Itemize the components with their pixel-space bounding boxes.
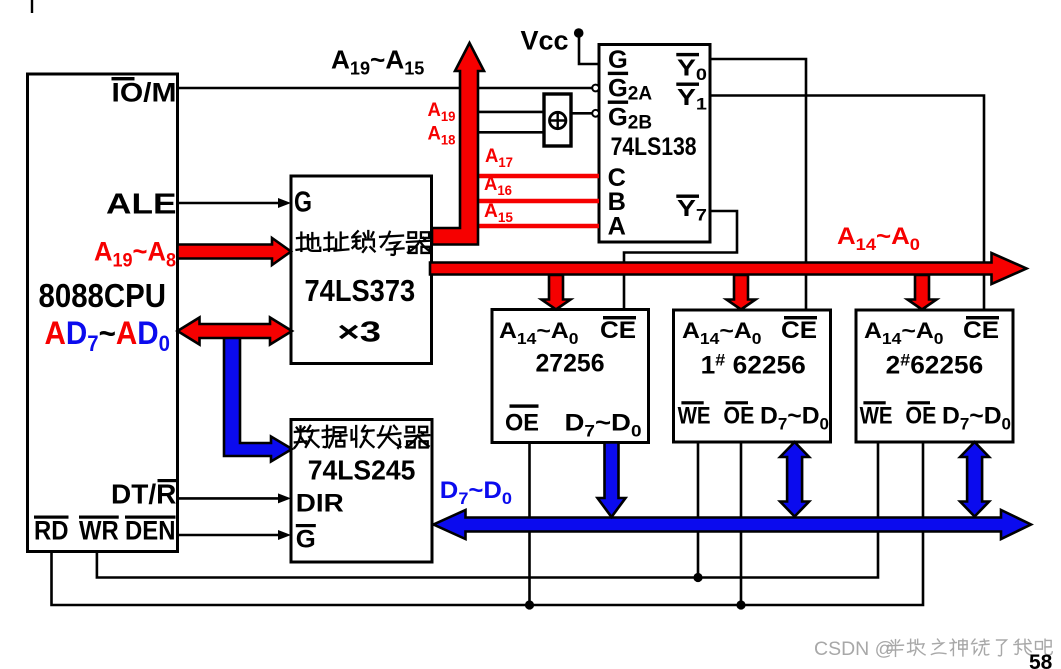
svg-text:G: G	[296, 526, 316, 554]
svg-text:D7~D0: D7~D0	[565, 410, 642, 441]
svg-text:DIR: DIR	[296, 490, 344, 518]
svg-text:WE: WE	[678, 402, 711, 429]
XOR gate	[544, 94, 571, 146]
blue double arrow chip2 data	[780, 442, 809, 517]
svg-text:A19~A15: A19~A15	[331, 45, 424, 79]
inverter bubble G2B	[592, 110, 599, 117]
wire branch RD to OE of chip2	[740, 442, 743, 605]
Vcc dot	[574, 28, 584, 38]
CJK char zhi 址	[324, 233, 348, 251]
memory chip 1# 62256	[674, 310, 831, 442]
watermark char zhi1	[931, 639, 945, 654]
svg-text:DEN: DEN	[125, 516, 176, 546]
svg-text:CE: CE	[963, 317, 999, 344]
memory chip 27256	[492, 310, 649, 443]
svg-text:A15: A15	[484, 201, 513, 225]
svg-text:A19~A8: A19~A8	[94, 237, 176, 272]
arrowhead DT/R->DIR	[278, 493, 291, 503]
red down arrow address into chip2	[727, 275, 756, 310]
CJK char suo 锁	[352, 231, 374, 252]
svg-text:8088CPU: 8088CPU	[39, 277, 167, 314]
blue down arrow 27256 data	[598, 443, 626, 518]
CJK char ju 据	[323, 426, 347, 448]
junction dot WR/WE chip2	[693, 573, 702, 582]
svg-text:RD: RD	[34, 516, 69, 546]
watermark char shen	[950, 639, 967, 656]
watermark char le	[997, 640, 1007, 656]
svg-text:D7~D0: D7~D0	[760, 402, 829, 433]
CJK char shou 收	[352, 426, 374, 447]
watermark char ban	[888, 640, 904, 657]
wire RD to OE pins	[52, 442, 924, 605]
CPU box 8088CPU	[28, 74, 178, 552]
decoder box 74LS138	[599, 45, 710, 243]
wire branch WR to WE of chip2	[697, 442, 700, 578]
latch box 74LS373	[291, 176, 432, 364]
blue double arrow chip3 data	[960, 442, 989, 517]
svg-text:WE: WE	[860, 402, 893, 429]
address bus A19~A15 vertical arrow	[432, 43, 484, 245]
address/data bus AD7~AD0 double arrow	[178, 318, 293, 345]
red down arrow address into 27256	[542, 275, 571, 310]
svg-text:IO/M: IO/M	[112, 78, 177, 108]
stray mark top-left	[31, 0, 33, 13]
svg-text:ALE: ALE	[106, 189, 177, 221]
svg-text:WR: WR	[79, 516, 119, 546]
wire Vcc to G input of 74LS138	[579, 33, 599, 64]
junction dot RD/OE chip2	[736, 600, 745, 609]
watermark char wo	[1014, 639, 1031, 655]
svg-text:OE: OE	[905, 402, 936, 429]
wire DT/R to DIR	[178, 497, 283, 500]
data bus D7~D0 (blue horizontal double-arrow bus)	[434, 510, 1032, 539]
wire WR to WE pins	[97, 442, 878, 578]
wire Y0 output to CE of chip2	[710, 59, 806, 310]
svg-text:DT/R: DT/R	[111, 479, 176, 510]
svg-text:CE: CE	[600, 317, 636, 344]
wire IO/M from CPU to G2A bubble	[178, 87, 593, 90]
svg-text:G: G	[608, 46, 628, 74]
red down arrow address into chip3	[908, 275, 937, 310]
svg-text:CE: CE	[781, 317, 817, 344]
svg-text:74LS245: 74LS245	[308, 455, 416, 486]
svg-text:27256: 27256	[536, 349, 605, 377]
data bus from AD7~AD0 down to 74LS245 (blue L arrow)	[224, 331, 292, 462]
wire Y7 output to CE of chip1	[624, 211, 737, 310]
svg-text:Vcc: Vcc	[521, 26, 569, 56]
svg-text:CSDN @: CSDN @	[814, 638, 894, 660]
wire branch RD to OE of 27256	[528, 443, 531, 606]
CJK char fa 发	[378, 426, 400, 448]
arrowhead DEN->G	[278, 530, 291, 540]
wire ALE to G of 74LS373	[178, 202, 283, 205]
CJK char shu 数	[295, 426, 319, 448]
svg-text:D7~D0: D7~D0	[440, 477, 512, 508]
CJK char qi 器	[405, 427, 429, 448]
svg-text:AD7~AD0: AD7~AD0	[45, 315, 171, 356]
CJK char cun 存	[380, 232, 403, 255]
memory chip 2# 62256	[856, 310, 1013, 442]
junction dot RD/OE 27256	[525, 600, 534, 609]
svg-text:A17: A17	[485, 146, 513, 170]
svg-text:A18: A18	[428, 124, 456, 148]
wire XOR output to G2B bubble	[571, 112, 593, 115]
arrowhead ALE->G	[278, 198, 291, 208]
svg-text:OE: OE	[505, 410, 539, 437]
wire A17 to C input	[478, 174, 599, 179]
svg-text:D7~D0: D7~D0	[942, 402, 1011, 433]
svg-text:A19: A19	[428, 100, 456, 124]
CJK char qi 器	[407, 232, 431, 253]
svg-text:OE: OE	[723, 402, 754, 429]
watermark char ba	[1036, 639, 1053, 655]
svg-text:58: 58	[1029, 651, 1053, 669]
svg-text:74LS138: 74LS138	[611, 133, 697, 161]
wire A16 to B input	[478, 199, 599, 204]
svg-text:74LS373: 74LS373	[305, 273, 416, 308]
svg-text:A14~A0: A14~A0	[837, 223, 920, 254]
wire A19 into XOR gate	[478, 111, 545, 114]
svg-text:×3: ×3	[337, 317, 381, 349]
address bus A19~A8 arrow CPU to 74LS373	[178, 238, 292, 265]
transceiver box 74LS245	[291, 420, 432, 563]
wire A15 to A input	[478, 224, 599, 229]
CJK char di 地	[297, 233, 321, 251]
svg-text:A: A	[608, 212, 626, 240]
wire Y1 output to CE of chip3	[710, 96, 984, 311]
watermark char rao	[972, 639, 989, 655]
wire DEN to G of 74LS245	[178, 534, 283, 537]
inverter bubble G2A	[592, 85, 599, 92]
svg-text:G: G	[294, 187, 312, 219]
wire A18 into XOR gate	[478, 131, 545, 134]
watermark char po	[908, 639, 925, 655]
address bus A14~A0 horizontal arrow	[430, 253, 1027, 284]
